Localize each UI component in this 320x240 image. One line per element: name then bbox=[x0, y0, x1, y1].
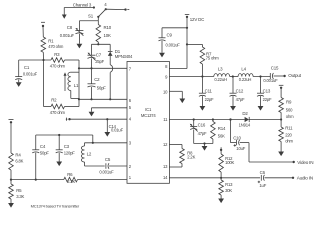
svg-text:C15: C15 bbox=[271, 65, 279, 70]
svg-text:12V DC: 12V DC bbox=[190, 17, 204, 22]
svg-text:C8: C8 bbox=[67, 25, 73, 30]
svg-text:C12: C12 bbox=[236, 88, 244, 93]
svg-text:50pF: 50pF bbox=[40, 151, 49, 156]
svg-text:MPN3404: MPN3404 bbox=[115, 54, 133, 59]
svg-text:22pF: 22pF bbox=[205, 97, 214, 102]
svg-text:C4: C4 bbox=[40, 144, 46, 149]
svg-text:1uF: 1uF bbox=[259, 183, 266, 188]
svg-text:C11: C11 bbox=[205, 88, 213, 93]
svg-text:470 ohm: 470 ohm bbox=[50, 110, 66, 115]
svg-text:Output: Output bbox=[288, 73, 302, 78]
svg-text:0.22uH: 0.22uH bbox=[214, 77, 227, 82]
svg-text:MC1374: MC1374 bbox=[141, 113, 157, 118]
svg-text:R2: R2 bbox=[51, 98, 57, 103]
svg-text:0.001uF: 0.001uF bbox=[99, 170, 114, 175]
svg-text:R9: R9 bbox=[286, 99, 292, 104]
svg-text:0.001uF: 0.001uF bbox=[263, 78, 278, 83]
svg-text:R14: R14 bbox=[218, 126, 226, 131]
svg-text:L2: L2 bbox=[87, 152, 92, 157]
svg-text:Channel 3: Channel 3 bbox=[73, 2, 92, 7]
svg-text:470 ohm: 470 ohm bbox=[48, 44, 64, 49]
svg-text:R3: R3 bbox=[54, 52, 60, 57]
svg-text:22pF: 22pF bbox=[263, 97, 272, 102]
svg-text:L4: L4 bbox=[241, 66, 246, 71]
svg-text:C6: C6 bbox=[260, 170, 266, 175]
svg-text:L1: L1 bbox=[74, 83, 79, 88]
svg-text:C2: C2 bbox=[94, 77, 100, 82]
svg-text:IC1: IC1 bbox=[145, 107, 152, 112]
svg-text:ohm: ohm bbox=[286, 114, 294, 119]
svg-text:470 ohm: 470 ohm bbox=[50, 64, 66, 69]
svg-text:ohm: ohm bbox=[285, 139, 293, 144]
svg-text:Video IN: Video IN bbox=[297, 160, 313, 165]
svg-text:0.01uF: 0.01uF bbox=[111, 128, 124, 133]
svg-text:R11: R11 bbox=[285, 125, 293, 130]
svg-text:C3: C3 bbox=[64, 144, 70, 149]
svg-text:10K: 10K bbox=[104, 33, 112, 38]
svg-text:100K: 100K bbox=[225, 160, 234, 165]
svg-text:56pF: 56pF bbox=[97, 85, 106, 90]
svg-text:Audio IN: Audio IN bbox=[297, 176, 313, 181]
svg-text:0.001uF: 0.001uF bbox=[23, 72, 38, 77]
svg-text:C7: C7 bbox=[96, 52, 102, 57]
svg-text:C13: C13 bbox=[263, 88, 271, 93]
svg-text:R6: R6 bbox=[67, 172, 73, 177]
svg-text:1N914: 1N914 bbox=[239, 122, 251, 127]
svg-text:56K: 56K bbox=[218, 134, 225, 139]
svg-text:2.2K: 2.2K bbox=[187, 154, 195, 159]
svg-text:C5: C5 bbox=[105, 157, 111, 162]
svg-text:L3: L3 bbox=[218, 66, 223, 71]
svg-text:10uF: 10uF bbox=[236, 146, 245, 151]
svg-text:6.8K: 6.8K bbox=[15, 158, 23, 163]
svg-text:2.2K: 2.2K bbox=[67, 179, 75, 184]
svg-text:R10: R10 bbox=[104, 25, 112, 30]
svg-text:0.22uH: 0.22uH bbox=[239, 77, 252, 82]
svg-text:D2: D2 bbox=[242, 111, 248, 116]
svg-text:R4: R4 bbox=[15, 153, 21, 158]
svg-text:C10: C10 bbox=[233, 135, 241, 140]
svg-text:75 ohm: 75 ohm bbox=[206, 56, 220, 61]
svg-text:25pF: 25pF bbox=[95, 59, 104, 64]
svg-text:S1: S1 bbox=[88, 14, 94, 19]
svg-text:C9: C9 bbox=[167, 32, 173, 37]
svg-text:C1: C1 bbox=[24, 65, 30, 70]
svg-text:47pF: 47pF bbox=[236, 97, 245, 102]
svg-text:R1: R1 bbox=[48, 39, 54, 44]
svg-text:560: 560 bbox=[286, 108, 293, 113]
svg-text:R5: R5 bbox=[16, 188, 22, 193]
svg-text:0.001uF: 0.001uF bbox=[166, 43, 181, 48]
svg-text:30K: 30K bbox=[225, 188, 232, 193]
svg-text:R13: R13 bbox=[225, 182, 233, 187]
svg-text:0.001uF: 0.001uF bbox=[60, 33, 75, 38]
svg-text:C16: C16 bbox=[198, 123, 206, 128]
svg-text:47pF: 47pF bbox=[198, 131, 207, 136]
svg-text:120pF: 120pF bbox=[64, 151, 76, 156]
svg-text:220: 220 bbox=[285, 133, 292, 138]
svg-text:3.3K: 3.3K bbox=[16, 194, 24, 199]
svg-text:MC1374 based TV transmitter: MC1374 based TV transmitter bbox=[31, 203, 80, 208]
